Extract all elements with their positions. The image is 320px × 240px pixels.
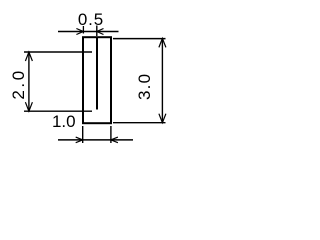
dimension 2.0 top arrowhead [25,52,32,61]
dimension 1.0 dimension line [58,139,133,141]
dimension 0.5 right arrowhead [97,29,104,35]
dimension 1.0 right extension line [110,126,112,143]
dimension 3.0 top arrowhead [159,38,166,47]
dimension 0.5 left arrowhead [76,29,83,35]
svg-text:2.0: 2.0 [9,68,28,99]
dimension 2.0 top extension line [24,51,92,53]
svg-text:3.0: 3.0 [135,73,154,100]
svg-text:1.0: 1.0 [52,112,76,131]
svg-text:0.5: 0.5 [78,10,104,29]
dimension 2.0 dimension line [28,52,30,111]
inner feature line [96,37,98,110]
dimension 0.5 right extension line [96,26,98,37]
dimension 3.0 bottom extension line [113,122,166,124]
dimension 1.0 left extension line [82,126,84,143]
dimension 2.0 bottom arrowhead [25,102,32,111]
dimension 2.0 bottom extension line [24,110,92,112]
dimension 0.5 dimension line [58,31,119,33]
dimension 1.0 right arrowhead [111,137,118,143]
dimension 3.0 top extension line [113,38,166,40]
dimension 1.0 left arrowhead [76,137,83,143]
dimension 0.5 left extension line [82,26,84,34]
dimension 3.0 dimension line [161,39,163,123]
part outline rectangle [83,37,111,123]
dimension 3.0 bottom arrowhead [159,114,166,123]
